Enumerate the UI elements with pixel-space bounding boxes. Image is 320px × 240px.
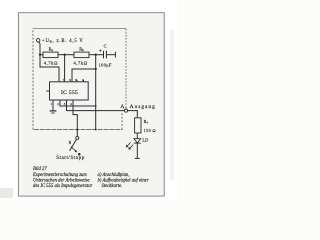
svg-text:des IC 555 als Impulsgenerator: des IC 555 als Impulsgenerator [33,184,93,189]
svg-text:Experimentierschaltung zum: Experimentierschaltung zum [32,173,87,178]
svg-text:Untersuchen der Arbeitsweise: Untersuchen der Arbeitsweise [33,179,89,184]
svg-text:100µF: 100µF [99,63,112,68]
svg-text:Rv: Rv [144,119,149,125]
svg-text:LD: LD [142,138,148,143]
svg-text:A. Ausgang: A. Ausgang [120,104,155,110]
svg-text:+UB, z.B. 4,5 V: +UB, z.B. 4,5 V [42,39,84,44]
svg-text:Start/Stopp: Start/Stopp [56,156,85,161]
svg-text:IC 555: IC 555 [61,90,78,96]
svg-text:Ra: Ra [49,46,54,52]
svg-text:b) Aufbaubeispiel auf einer: b) Aufbaubeispiel auf einer [98,179,149,184]
svg-text:Steckkarte.: Steckkarte. [102,184,123,189]
svg-text:a) Anschlußplan,: a) Anschlußplan, [98,173,130,178]
svg-text:Rb: Rb [79,46,84,52]
svg-text:C: C [104,43,107,48]
svg-text:150 Ω: 150 Ω [144,128,157,133]
svg-text:Bild 27: Bild 27 [33,167,47,172]
